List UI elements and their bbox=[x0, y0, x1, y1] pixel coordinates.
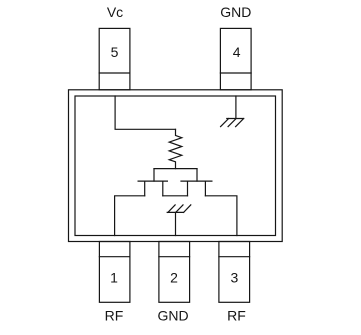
ground symbol (source / pin 2) bbox=[167, 205, 191, 213]
svg-text:RF: RF bbox=[227, 307, 246, 323]
transistor Q1 channel bar bbox=[138, 180, 167, 182]
svg-text:1: 1 bbox=[110, 269, 118, 285]
transistor Q1 drain lead bbox=[144, 181, 146, 196]
wire pin 4 to ground bbox=[235, 96, 237, 119]
svg-text:4: 4 bbox=[233, 44, 241, 60]
pin 5 pad divider bbox=[99, 72, 130, 74]
transistor Q2 source lead bbox=[187, 181, 189, 196]
package inner body rectangle bbox=[75, 96, 276, 236]
wire pin5 to resistor R1 top bbox=[115, 96, 175, 129]
svg-text:GND: GND bbox=[158, 307, 189, 323]
ground symbol (pin 4) bbox=[221, 119, 244, 127]
pin 2 (GND) bottom-middle pad bbox=[159, 242, 190, 303]
transistor Q2 channel bar bbox=[181, 180, 212, 182]
wire source bus Q1-Q2 bbox=[163, 195, 188, 197]
package outer body rectangle bbox=[69, 90, 283, 242]
svg-text:3: 3 bbox=[231, 269, 239, 285]
resistor R1 (bias resistor) bbox=[169, 129, 182, 168]
svg-text:GND: GND bbox=[220, 4, 251, 20]
wire gate bus bbox=[154, 168, 197, 170]
wire gate lead Q1 bbox=[153, 169, 155, 182]
wire gate lead Q2 bbox=[196, 169, 198, 182]
svg-text:2: 2 bbox=[170, 269, 178, 285]
pin 1 (RF) bottom-left pad bbox=[99, 242, 129, 303]
pin 5 (Vc) top-left pad bbox=[99, 28, 130, 89]
wire pin 2 to ground bbox=[175, 212, 177, 235]
transistor Q1 source lead bbox=[162, 181, 164, 196]
svg-text:RF: RF bbox=[105, 307, 124, 323]
wire Q1 drain to pin 1 bbox=[115, 196, 145, 236]
transistor Q2 drain lead bbox=[204, 181, 206, 196]
pin 4 pad divider bbox=[220, 72, 251, 74]
pin 4 (GND) top-right pad bbox=[220, 28, 251, 89]
pin 3 (RF) bottom-right pad bbox=[219, 242, 250, 303]
svg-text:5: 5 bbox=[111, 44, 119, 60]
wire Q2 drain to pin 3 bbox=[205, 196, 237, 236]
svg-text:Vc: Vc bbox=[107, 4, 123, 20]
pin 2 pad divider bbox=[159, 256, 190, 258]
pin 3 pad divider bbox=[219, 256, 250, 258]
pin 1 pad divider bbox=[99, 256, 129, 258]
